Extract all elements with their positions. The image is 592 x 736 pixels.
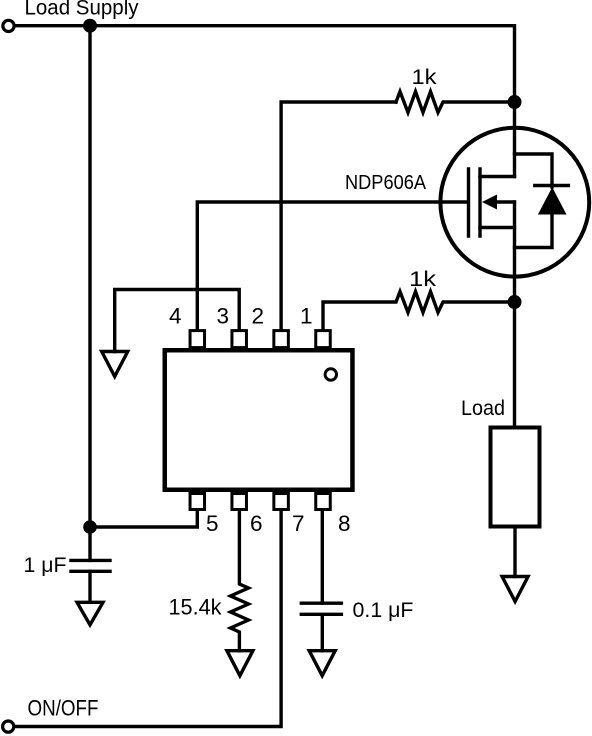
- svg-text:1 μF: 1 μF: [24, 554, 67, 577]
- svg-text:ON/OFF: ON/OFF: [28, 695, 99, 720]
- svg-text:1: 1: [300, 304, 313, 329]
- svg-text:7: 7: [292, 511, 305, 536]
- svg-text:4: 4: [169, 304, 182, 329]
- svg-text:5: 5: [206, 511, 219, 536]
- svg-text:15.4k: 15.4k: [169, 595, 223, 620]
- svg-text:0.1 μF: 0.1 μF: [353, 599, 414, 622]
- svg-text:3: 3: [216, 304, 229, 329]
- svg-text:Load: Load: [461, 397, 505, 420]
- svg-text:2: 2: [251, 304, 264, 329]
- svg-text:1k: 1k: [409, 268, 437, 291]
- svg-text:6: 6: [250, 511, 263, 536]
- svg-text:1k: 1k: [412, 66, 438, 89]
- svg-text:NDP606A: NDP606A: [345, 172, 427, 194]
- svg-text:Load Supply: Load Supply: [25, 0, 139, 20]
- svg-text:8: 8: [338, 511, 351, 536]
